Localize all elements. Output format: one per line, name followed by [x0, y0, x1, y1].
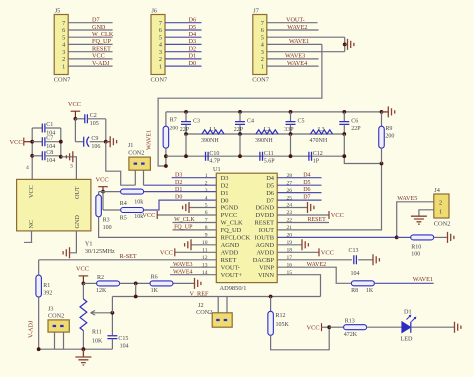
- svg-text:J1: J1: [128, 142, 134, 149]
- svg-text:200: 200: [385, 134, 394, 140]
- wire R6 to ground: [173, 282, 194, 284]
- svg-text:V-ADJ: V-ADJ: [28, 320, 35, 338]
- svg-text:104: 104: [120, 343, 129, 349]
- connector J5 CON7: [54, 15, 68, 75]
- svg-text:100: 100: [411, 252, 420, 258]
- svg-text:WAVE3: WAVE3: [285, 53, 305, 60]
- J5 pin 5 wire (W_CLK): [68, 36, 112, 38]
- svg-text:RSET: RSET: [221, 257, 237, 264]
- wire right bus to Y1 OUT pin: [61, 157, 77, 180]
- svg-text:D7: D7: [303, 195, 310, 201]
- svg-text:V-ADJ: V-ADJ: [92, 60, 110, 67]
- capacitor C12 1P: [309, 152, 312, 161]
- node drop L2/C5/L3: [290, 134, 292, 156]
- wire W_CLK to pin 7: [173, 222, 217, 224]
- capacitor C4 22P: [239, 112, 241, 122]
- svg-text:C6: C6: [351, 118, 358, 124]
- J5 pin 4 wire (FQ_UP): [68, 43, 112, 45]
- resistor R5 10k: [103, 209, 120, 211]
- power port VCC (above R3): [98, 186, 108, 188]
- svg-text:D1: D1: [175, 187, 182, 193]
- svg-text:J4: J4: [434, 187, 440, 194]
- resistor R7 200: [165, 112, 167, 126]
- svg-text:PGND: PGND: [221, 205, 239, 212]
- svg-text:W_CLK: W_CLK: [221, 220, 243, 227]
- svg-text:CON2: CON2: [128, 149, 144, 156]
- resistor R4 10k: [103, 191, 120, 193]
- connector J3 CON2 (jumper): [48, 320, 69, 332]
- resistor R3 100: [98, 192, 100, 195]
- svg-text:VCC: VCC: [10, 139, 23, 146]
- svg-text:3: 3: [261, 49, 264, 56]
- svg-text:C5: C5: [298, 118, 305, 124]
- svg-text:R8: R8: [351, 288, 358, 294]
- svg-text:D2: D2: [189, 46, 197, 53]
- svg-text:DVDD: DVDD: [256, 212, 275, 219]
- svg-text:3: 3: [62, 49, 65, 56]
- J7 pin 1 wire (WAVE4): [267, 65, 319, 67]
- svg-text:4: 4: [205, 195, 208, 201]
- wire FQ_UP to pin 8: [173, 229, 217, 231]
- J6 pin 7 wire (D6): [165, 22, 202, 24]
- connector J1 CON2 (jumper): [129, 157, 151, 170]
- J7 pin 5 wire: [267, 36, 345, 38]
- potentiometer R11 10K: [82, 283, 84, 299]
- svg-text:VOUT-: VOUT-: [221, 264, 240, 271]
- capacitor C5 33P: [290, 112, 292, 122]
- svg-text:1: 1: [439, 208, 442, 215]
- wire filter ground rail: [166, 111, 382, 113]
- node drop L3/C6 to C12 row: [344, 134, 381, 164]
- svg-text:VINP: VINP: [259, 264, 274, 271]
- J3 pin 2 wire: [63, 332, 65, 349]
- svg-text:1: 1: [62, 63, 65, 70]
- svg-text:C7: C7: [46, 136, 53, 142]
- svg-text:2: 2: [439, 199, 442, 206]
- junction VCC / R12 return / R13: [327, 325, 331, 329]
- svg-text:D5: D5: [266, 182, 274, 189]
- svg-text:30/125MHz: 30/125MHz: [85, 248, 115, 255]
- J5 pin 7 wire (D7): [68, 22, 112, 24]
- svg-text:GND: GND: [74, 215, 81, 229]
- svg-text:R11: R11: [92, 330, 102, 336]
- wire R3 bottom to chip pin 9 (RFCLOCK): [99, 217, 217, 238]
- svg-text:VCC: VCC: [331, 212, 344, 219]
- svg-text:4: 4: [62, 42, 65, 49]
- J7 pin 7 wire (VOUT-): [267, 22, 318, 24]
- svg-text:C13: C13: [349, 248, 359, 254]
- svg-text:1: 1: [261, 63, 264, 70]
- svg-text:WAVE1: WAVE1: [289, 38, 309, 45]
- svg-text:10K: 10K: [92, 339, 103, 345]
- svg-text:7: 7: [159, 20, 162, 27]
- J7 pin 2 wire (WAVE3): [267, 58, 319, 60]
- wire VCC down to C9 row: [74, 119, 76, 142]
- svg-text:J3: J3: [48, 305, 54, 312]
- junction R11 bottom / ground: [82, 347, 86, 351]
- svg-text:D4: D4: [303, 172, 310, 178]
- svg-text:D4: D4: [266, 175, 275, 182]
- capacitor C15 104: [111, 313, 113, 335]
- node drop C3/L1: [185, 134, 187, 156]
- svg-text:6: 6: [62, 27, 65, 34]
- svg-text:2: 2: [159, 56, 162, 63]
- ground at pin 24 (DGND): [277, 207, 307, 209]
- resistor R8 1K: [351, 281, 374, 286]
- svg-text:6: 6: [159, 27, 162, 34]
- ground at bottom rail: [82, 349, 84, 356]
- svg-text:U1: U1: [213, 166, 221, 173]
- svg-text:2: 2: [261, 56, 264, 63]
- wire R-SET to pin 12: [39, 259, 217, 261]
- capacitor C10 4.7P: [206, 152, 209, 161]
- resistor R13 472K: [329, 326, 344, 328]
- ground at pin 10 (AGND): [191, 244, 216, 246]
- svg-text:4: 4: [26, 165, 29, 171]
- svg-text:390NH: 390NH: [201, 138, 219, 144]
- wire C10 rail: [166, 155, 344, 157]
- svg-text:FQ_UP: FQ_UP: [174, 225, 193, 231]
- J1 pin 1 wire to ground bus: [134, 170, 136, 185]
- wire R5 to D0 line and chip pin 4: [144, 200, 216, 210]
- svg-text:105: 105: [90, 121, 99, 127]
- svg-text:C15: C15: [118, 336, 128, 342]
- svg-text:IOUTB: IOUTB: [254, 235, 274, 242]
- ground at C13: [373, 254, 379, 265]
- J6 pin 3 wire (D2): [165, 51, 202, 53]
- svg-text:5: 5: [159, 34, 162, 41]
- Y1 GND pin wire: [70, 231, 77, 253]
- J5 pin 6 wire (GND): [68, 29, 112, 31]
- power port VCC (at R13): [321, 323, 323, 331]
- wire drop from R2/R6 node to V_REF rail: [135, 283, 137, 296]
- wire VINN pin 15 to V_REF rail: [277, 275, 320, 297]
- wire WAVE5 from J4 pin 2: [397, 202, 434, 238]
- resistor R6 1K: [150, 281, 173, 286]
- power port VCC at pin 11 (AVDD): [175, 251, 217, 253]
- ground at filter rail right end: [382, 111, 389, 113]
- J6 pin 5 wire (D4): [165, 36, 202, 38]
- svg-text:WAVE3: WAVE3: [173, 262, 193, 268]
- svg-text:C8: C8: [46, 150, 53, 156]
- wire LED to ground: [411, 326, 455, 328]
- J5 pin 1 wire (V-ADJ): [68, 65, 112, 67]
- svg-text:5: 5: [62, 34, 65, 41]
- junction V_REF / R12: [269, 295, 273, 299]
- svg-text:390NH: 390NH: [255, 138, 273, 144]
- svg-text:D6: D6: [189, 17, 197, 24]
- ground at J7 (pins 5,3): [345, 43, 348, 45]
- wire R10 to ground: [434, 236, 448, 238]
- wire V_REF rail: [112, 296, 320, 298]
- wire R13 to LED: [366, 326, 401, 328]
- J2 pin 2 wire to V_REF: [226, 297, 228, 313]
- resistor R10 100: [397, 236, 411, 238]
- junction VCC bus / C7 row: [30, 140, 34, 144]
- svg-text:J6: J6: [152, 8, 158, 15]
- capacitor C8 104: [32, 155, 42, 157]
- capacitor C11 5.6P: [260, 152, 263, 161]
- svg-text:4: 4: [261, 42, 264, 49]
- svg-text:AVDD: AVDD: [221, 250, 239, 257]
- svg-text:D1: D1: [404, 308, 412, 315]
- J6 pin 1 wire (D0): [165, 65, 202, 67]
- Y1 NC pin with no-connect tick: [31, 231, 33, 243]
- wire RESET from pin 22: [277, 222, 329, 224]
- wire D4 from pin 28: [277, 177, 321, 179]
- junction WAVE5 / IOUTB / R10: [395, 236, 399, 240]
- wire R11 bottom: [82, 331, 84, 350]
- svg-text:WAVE2: WAVE2: [307, 262, 327, 268]
- junction C9 right / ground: [104, 140, 108, 144]
- J6 pin 4 wire (D3): [165, 43, 202, 45]
- svg-text:D3: D3: [189, 38, 197, 45]
- wire R8 to WAVE1: [374, 282, 434, 284]
- svg-text:D3: D3: [175, 172, 182, 178]
- svg-text:392: 392: [43, 291, 52, 297]
- resistor R9 200: [381, 112, 383, 126]
- wire VCC down to R5: [102, 192, 104, 210]
- svg-text:CON7: CON7: [252, 77, 269, 84]
- svg-text:W_CLK: W_CLK: [174, 217, 195, 223]
- svg-text:R2: R2: [97, 275, 104, 281]
- junction filter output / R9 / IOUT: [380, 162, 384, 166]
- svg-text:1K: 1K: [151, 288, 159, 294]
- svg-text:7: 7: [62, 20, 65, 27]
- svg-text:VINN: VINN: [258, 272, 274, 279]
- svg-text:C11: C11: [264, 151, 274, 157]
- svg-text:J5: J5: [55, 8, 61, 15]
- junction V_REF / R2R6 drop: [134, 295, 138, 299]
- svg-text:472K: 472K: [344, 332, 358, 338]
- svg-text:D2: D2: [175, 180, 182, 186]
- svg-text:100: 100: [103, 225, 112, 231]
- svg-text:DACBP: DACBP: [253, 257, 275, 264]
- inductor L1 390NH: [202, 130, 224, 134]
- wire right bus of C1/C7/C8: [60, 128, 62, 157]
- J3 pin 1 wire: [54, 332, 56, 349]
- power port VCC (above R2): [79, 275, 89, 277]
- power port VCC (left): [23, 138, 25, 146]
- ground at J4 pin 1: [411, 216, 427, 224]
- junction R7 / WAVE1: [164, 164, 168, 168]
- svg-text:AD9850/1: AD9850/1: [220, 285, 247, 292]
- svg-text:1: 1: [159, 63, 162, 70]
- svg-text:W_CLK: W_CLK: [92, 31, 114, 38]
- svg-text:VCC: VCC: [28, 185, 35, 198]
- svg-text:C10: C10: [209, 151, 219, 157]
- connector J7 CON7: [253, 15, 267, 75]
- junction R11 wiper / C15 / V_REF riser: [111, 311, 115, 315]
- svg-text:CON2: CON2: [48, 312, 64, 319]
- svg-text:D0: D0: [175, 195, 182, 201]
- svg-text:VCC: VCC: [68, 101, 81, 108]
- svg-text:5: 5: [261, 34, 264, 41]
- IC U1 AD9850/1: [216, 173, 277, 282]
- svg-text:OUT: OUT: [74, 186, 81, 199]
- svg-text:22P: 22P: [351, 126, 361, 132]
- wire D5 from pin 27: [277, 184, 321, 186]
- junction VCC bus / C8 row: [30, 154, 34, 158]
- svg-text:FQ_UD: FQ_UD: [221, 227, 242, 234]
- svg-text:WAVE4: WAVE4: [287, 60, 307, 67]
- junction VCC / R2 / R11: [82, 282, 86, 286]
- svg-text:D1: D1: [189, 53, 197, 60]
- J7 pin5-pin3 ground tie wire: [344, 37, 346, 52]
- svg-text:C1: C1: [46, 122, 53, 128]
- J1 pin 2 wire to D2 line: [143, 170, 145, 185]
- wire R1 bottom (V-ADJ): [38, 297, 40, 349]
- svg-text:D4: D4: [189, 31, 197, 38]
- svg-text:R-SET: R-SET: [120, 253, 137, 260]
- svg-text:2: 2: [62, 56, 65, 63]
- svg-text:R4: R4: [120, 201, 127, 207]
- svg-text:D0: D0: [221, 197, 229, 204]
- wire WAVE1 from J7 pin4 down and across: [158, 44, 322, 166]
- wire D2 to pin 2: [144, 184, 217, 186]
- svg-text:R5: R5: [120, 216, 127, 222]
- wire IOUTB pin 20 to R10: [277, 236, 397, 238]
- J5 pin 2 wire (VCC): [68, 58, 112, 60]
- svg-text:LED: LED: [401, 336, 414, 343]
- wire R12 bottom to VCC node: [271, 327, 330, 350]
- wire C2/C9 right bus: [105, 119, 107, 142]
- wire IOUT pin 21 to filter output: [277, 164, 381, 230]
- svg-text:D1: D1: [221, 190, 229, 197]
- LED D1: [402, 322, 411, 333]
- power port VCC at pin 18 (AVDD): [277, 251, 319, 253]
- svg-text:R6: R6: [151, 275, 158, 281]
- svg-text:WAVE2: WAVE2: [287, 24, 307, 31]
- svg-text:L3: L3: [318, 127, 325, 133]
- svg-text:D2: D2: [221, 182, 229, 189]
- svg-text:D6: D6: [266, 190, 274, 197]
- svg-text:105K: 105K: [276, 322, 290, 328]
- ground at pin 19 (AGND): [277, 244, 302, 246]
- capacitor C3 22P: [185, 112, 187, 122]
- svg-text:VCC: VCC: [142, 212, 155, 219]
- svg-text:C3: C3: [193, 118, 200, 124]
- capacitor C1 104: [32, 127, 42, 129]
- wire WAVE2 pin 16 to R8: [277, 267, 352, 283]
- svg-text:R13: R13: [345, 318, 355, 324]
- power port VCC at pin 6 (PVCC): [157, 214, 216, 216]
- wire J4 pin 1 to ground: [419, 210, 434, 216]
- wire ground bus down to J1 pin 1: [106, 142, 136, 186]
- wire VCC bus left of C1/C7/C8: [31, 128, 33, 179]
- svg-text:C2: C2: [90, 113, 97, 119]
- wire D3 to pin 1: [172, 177, 217, 179]
- svg-text:104: 104: [351, 271, 360, 277]
- svg-text:3: 3: [205, 188, 208, 194]
- svg-text:VCC: VCC: [92, 53, 105, 60]
- inductor L2 390NH: [256, 130, 278, 134]
- svg-text:V_REF: V_REF: [190, 290, 209, 297]
- power port VCC at pin 23 (DVDD): [277, 214, 329, 216]
- svg-text:VCC: VCC: [76, 266, 89, 273]
- svg-text:1P: 1P: [313, 159, 320, 165]
- connector J6 CON7: [151, 15, 165, 75]
- J7 pin 3 wire: [267, 51, 345, 53]
- svg-text:WAVE1: WAVE1: [413, 276, 433, 283]
- junction R2/R6/V_REF drop: [134, 282, 138, 286]
- svg-text:D5: D5: [189, 24, 197, 31]
- svg-text:CON7: CON7: [151, 77, 168, 84]
- svg-text:VCC: VCC: [96, 177, 109, 184]
- svg-text:RESET: RESET: [254, 220, 274, 227]
- capacitor C2 105: [75, 118, 84, 120]
- R11 wiper arrow: [91, 311, 113, 316]
- connector J2 CON2 (jumper): [212, 313, 232, 327]
- svg-text:FQ_UP: FQ_UP: [92, 38, 111, 45]
- connector J4 CON2: [434, 194, 449, 218]
- svg-text:NC: NC: [28, 220, 35, 229]
- svg-text:1K: 1K: [366, 288, 374, 294]
- svg-text:104: 104: [46, 158, 55, 164]
- svg-text:RESET: RESET: [92, 46, 111, 53]
- svg-text:R1: R1: [43, 283, 50, 289]
- svg-text:L2: L2: [264, 127, 271, 133]
- svg-text:IOUT: IOUT: [259, 227, 274, 234]
- svg-text:D7: D7: [266, 197, 275, 204]
- svg-text:AGND: AGND: [256, 242, 275, 249]
- capacitor C9 106 (polarized): [75, 141, 83, 143]
- svg-text:10k: 10k: [134, 200, 143, 206]
- junction dots on filter signal row: [184, 132, 188, 136]
- capacitor C13 104 at pin 17 (DACBP): [277, 259, 352, 261]
- svg-text:12K: 12K: [96, 288, 107, 294]
- junction dots on ground rail: [184, 110, 188, 114]
- junction R7 bottom / C10 rail: [164, 154, 168, 158]
- junction VCC / R4 row: [101, 190, 105, 194]
- wire V-ADJ bottom rail: [39, 348, 113, 350]
- svg-text:Y1: Y1: [85, 241, 93, 248]
- svg-text:3: 3: [159, 49, 162, 56]
- svg-text:VOUT+: VOUT+: [221, 272, 243, 279]
- J6 pin 6 wire (D5): [165, 29, 202, 31]
- resistor R12 105K: [270, 297, 272, 312]
- svg-text:RFCLOCK: RFCLOCK: [221, 235, 251, 242]
- svg-text:R9: R9: [385, 126, 392, 132]
- capacitor C7 104: [32, 141, 42, 143]
- svg-text:J7: J7: [253, 8, 259, 15]
- wire D7 from pin 25: [277, 199, 321, 201]
- junction VCC / C2 row: [74, 117, 78, 121]
- svg-text:VOUT-: VOUT-: [286, 17, 305, 24]
- inductor L3 470NH: [311, 130, 333, 134]
- svg-text:VCC: VCC: [321, 250, 334, 257]
- oscillator Y1 30/125MHz: [17, 179, 91, 231]
- junction J7 ground node: [343, 43, 347, 47]
- svg-text:CON7: CON7: [54, 77, 71, 84]
- svg-text:200: 200: [170, 126, 179, 132]
- svg-text:AVDD: AVDD: [256, 250, 274, 257]
- wire filter signal row: [186, 133, 344, 135]
- wire WAVE3 to pin 13: [170, 266, 216, 268]
- svg-text:4.7P: 4.7P: [209, 159, 221, 165]
- J2 pin 1 wire to V_REF: [217, 297, 219, 313]
- svg-text:R10: R10: [411, 245, 421, 251]
- wire D6 from pin 26: [277, 192, 321, 194]
- svg-text:CON2: CON2: [434, 221, 451, 228]
- svg-text:CON2: CON2: [196, 309, 212, 316]
- svg-text:9: 9: [205, 233, 208, 239]
- svg-text:DGND: DGND: [256, 205, 275, 212]
- svg-text:33P: 33P: [284, 127, 294, 133]
- svg-text:WAVE1: WAVE1: [146, 130, 153, 150]
- capacitor C6 22P: [343, 112, 345, 122]
- J5 pin 3 wire (RESET): [68, 51, 112, 53]
